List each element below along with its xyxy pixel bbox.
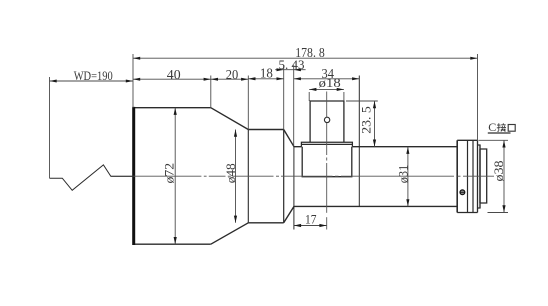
illuminator port cylinder phi18 [310, 101, 344, 142]
dim 178.8 [133, 57, 478, 59]
phi48 barrel [248, 130, 283, 223]
taper cone phi72 to phi48 [211, 108, 249, 245]
lens front face (thick edge) [132, 107, 135, 245]
svg-text:18: 18 [260, 67, 273, 82]
set screw [460, 190, 465, 195]
phi48 barrel right edge [283, 130, 285, 223]
dim WD=190 [50, 80, 134, 82]
underline of C-mount label [488, 132, 511, 134]
svg-text:ø38: ø38 [491, 161, 506, 182]
extension line E [293, 65, 295, 146]
lens front barrel phi72 outline [133, 108, 211, 245]
flange ring line 1 [467, 140, 469, 212]
svg-text:C: C [488, 120, 496, 134]
svg-text:20: 20 [226, 68, 239, 83]
glyph kou (mouth) [508, 125, 515, 132]
svg-text:5. 43: 5. 43 [279, 57, 305, 72]
dim 23.5 vertical [374, 101, 376, 147]
dim phi72 vertical [174, 108, 176, 245]
illuminator centerline [326, 92, 328, 118]
illuminator housing inside tube [302, 147, 352, 177]
svg-text:WD=190: WD=190 [74, 69, 113, 83]
dim phi31 vertical [407, 147, 409, 207]
dim 20 [211, 78, 249, 80]
dim 17 [294, 225, 327, 227]
flange body phi38 [457, 140, 477, 212]
back ring [478, 145, 481, 208]
svg-text:ø18: ø18 [319, 75, 341, 90]
phi18 extension lines [308, 92, 310, 101]
dim phi48 vertical [235, 130, 237, 223]
svg-text:ø72: ø72 [162, 163, 177, 184]
screw hole on illuminator [324, 117, 329, 122]
main tube phi31 top/bottom edges [294, 147, 457, 207]
dim 18 [248, 78, 283, 80]
dim phi18 [309, 88, 344, 90]
clamp block junction line [358, 76, 360, 207]
svg-text:ø31: ø31 [395, 165, 410, 184]
extension line C [247, 76, 249, 130]
optical axis centerline [111, 175, 133, 177]
dim 34 [294, 78, 360, 80]
glyph jie (interface) [497, 123, 506, 131]
dim 5.43 (outside arrows) [275, 69, 305, 71]
rear cone phi48 to tube [284, 130, 294, 223]
dim 40 [133, 78, 211, 80]
illuminator flange plate [301, 142, 352, 147]
cone-cylinder junction line [247, 130, 249, 223]
dim phi38 vertical [503, 140, 505, 212]
WD break zigzag [50, 165, 134, 190]
C-thread stub [480, 149, 487, 203]
extension line B [210, 76, 212, 108]
svg-text:ø48: ø48 [223, 163, 238, 183]
extension line A front [132, 54, 134, 108]
extension line right of 178.8 [477, 54, 479, 140]
flange ring line 2 [472, 140, 474, 212]
phi38 extension lines [479, 139, 509, 141]
extension line D [283, 65, 285, 130]
svg-text:40: 40 [167, 68, 181, 83]
tube junction line / 17-dim extension [293, 147, 295, 230]
svg-text:17: 17 [305, 212, 317, 227]
WD left extension line [49, 77, 51, 178]
23.5 top extension [346, 100, 378, 102]
svg-text:23. 5: 23. 5 [358, 106, 373, 134]
